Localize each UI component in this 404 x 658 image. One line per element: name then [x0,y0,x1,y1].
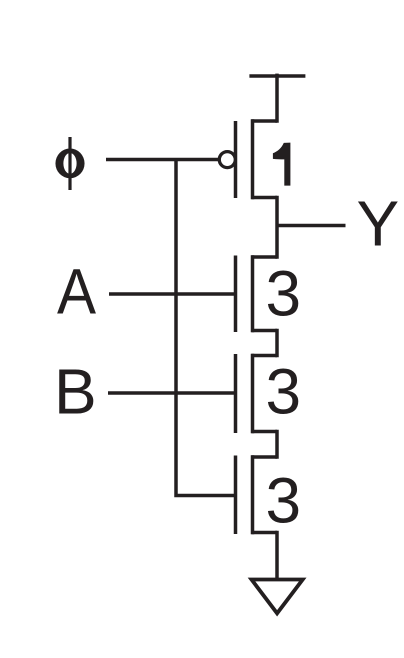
svg-text:3: 3 [266,356,302,428]
svg-text:3: 3 [266,465,302,537]
pmos M1 gate [234,121,238,198]
nmos M2 channel [251,255,255,332]
pmos M1 channel [251,119,255,199]
ground [252,580,303,614]
label phi [55,137,84,190]
nmos M3 gate [234,354,238,433]
nmos M4 gate [234,456,238,535]
nmos M2 gate [234,256,238,333]
wire B input [108,391,234,395]
pmos M1 source lead [252,119,278,123]
nmos M3 channel [251,354,255,434]
svg-text:B: B [54,356,97,428]
svg-text:A: A [57,255,96,327]
nmos M4 channel [251,455,255,534]
svg-text:3: 3 [266,258,302,330]
wire M3 to M4 [275,430,279,459]
nmos M3 drain lead [252,354,278,358]
wire phi trunk [176,160,234,496]
wire Y tap [277,224,346,228]
wire drain to output node [275,196,279,259]
nmos M4 source lead [252,531,278,535]
wire VDD stub [275,74,279,123]
wire phi input [106,158,219,162]
nmos M2 drain lead [252,255,278,259]
wire M2 to M3 [275,329,279,358]
pmos M1 drain lead [252,196,278,200]
wire A input [109,292,234,296]
svg-text:Y: Y [357,188,400,260]
nmos M2 source lead [252,329,278,333]
nmos M4 drain lead [252,455,278,459]
wire to ground [275,531,279,578]
VDD rail [249,74,305,78]
nmos M3 source lead [252,430,278,434]
label 1 [273,143,291,186]
pmos M1 bubble [219,152,235,168]
